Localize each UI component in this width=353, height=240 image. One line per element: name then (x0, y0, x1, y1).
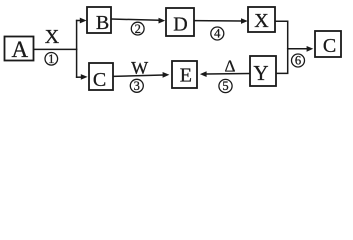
branch vertical wire (76, 20, 78, 78)
label 5 (219, 79, 232, 93)
box E (172, 61, 197, 88)
box X (248, 7, 275, 32)
wire branch to C bottom with arrow (76, 74, 88, 80)
svg-text:A: A (11, 37, 28, 62)
label 4 (211, 27, 224, 41)
svg-text:Δ: Δ (225, 56, 236, 75)
box A (5, 37, 34, 63)
svg-text:Y: Y (253, 61, 268, 85)
box B (87, 7, 111, 34)
wire D to X with arrow (194, 18, 248, 24)
label 1 (45, 52, 58, 66)
svg-text:5: 5 (222, 79, 228, 93)
svg-text:3: 3 (134, 79, 140, 93)
box Y (250, 56, 276, 86)
svg-text:2: 2 (135, 22, 141, 36)
wire X to junction (275, 21, 288, 49)
wire B to D with arrow (111, 18, 165, 24)
svg-text:D: D (173, 14, 187, 36)
wire junction to C with arrow (287, 46, 313, 52)
svg-text:C: C (93, 69, 106, 91)
box D (166, 8, 194, 36)
svg-text:X: X (254, 10, 269, 32)
label 2 (131, 22, 144, 36)
label 6 (292, 54, 305, 68)
svg-text:W: W (131, 58, 148, 78)
svg-text:6: 6 (295, 54, 301, 68)
svg-text:B: B (96, 12, 109, 34)
label 3 (130, 79, 143, 93)
svg-text:E: E (180, 65, 192, 87)
wire A to branch (34, 48, 77, 50)
svg-text:C: C (323, 35, 336, 57)
svg-text:X: X (45, 26, 60, 48)
box C right (315, 31, 341, 57)
svg-text:1: 1 (48, 52, 54, 66)
wire Y to E with left arrow (200, 71, 250, 77)
wire C to E with arrow (113, 72, 169, 78)
svg-text:4: 4 (214, 27, 221, 41)
box C bottom (89, 63, 113, 91)
wire branch to B with arrow (76, 18, 87, 24)
wire Y to junction (276, 48, 288, 73)
